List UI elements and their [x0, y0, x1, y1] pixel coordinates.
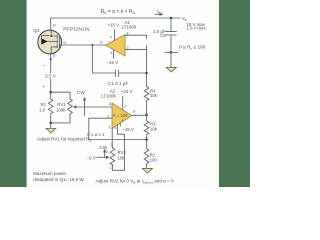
svg-text:3: 3	[109, 102, 111, 106]
potentiometer RV1	[51, 92, 73, 123]
svg-text:–5 V: –5 V	[87, 156, 96, 161]
capacitor C2	[166, 18, 177, 67]
svg-text:2: 2	[107, 114, 109, 118]
node C2 top junction	[170, 17, 173, 20]
wire A2 pin2	[89, 118, 147, 139]
svg-text:RV1: RV1	[57, 102, 66, 107]
svg-text:5: 5	[114, 126, 116, 130]
resistor R4	[144, 87, 149, 115]
svg-text:dissipated in Q1= 16.5 W: dissipated in Q1= 16.5 W	[33, 177, 84, 182]
node Ib arrow	[155, 13, 164, 16]
svg-text:3: 3	[111, 143, 113, 147]
wire A2 pin7	[122, 96, 124, 110]
node gate C1 junction	[91, 44, 93, 46]
svg-text:7: 7	[110, 36, 112, 40]
node VB	[145, 138, 148, 141]
svg-text:A2: A2	[110, 88, 116, 93]
transistor Q1	[38, 30, 62, 54]
svg-text:G: G	[63, 40, 66, 44]
svg-text:D: D	[53, 24, 56, 28]
op-amp A1	[106, 35, 126, 56]
svg-text:R1: R1	[41, 102, 47, 107]
svg-text:–15 V: –15 V	[107, 60, 119, 65]
svg-text:2: 2	[127, 46, 129, 50]
wire A2 out	[132, 114, 147, 116]
svg-text:100: 100	[150, 158, 158, 163]
svg-text:10k: 10k	[150, 127, 158, 132]
node bottom R1 RV1	[49, 122, 52, 125]
svg-text:RFP12N10L: RFP12N10L	[63, 27, 90, 33]
capacitor C1	[92, 45, 146, 73]
wire A2 pin5	[113, 125, 125, 171]
wire A1 pin2	[125, 46, 147, 87]
wire A2 pin4	[119, 123, 121, 126]
resistor R3	[144, 115, 149, 140]
wire stub Rb	[165, 51, 177, 53]
svg-text:10k: 10k	[150, 93, 158, 98]
ground under R2	[142, 168, 152, 173]
svg-text:1.0 A max: 1.0 A max	[186, 26, 206, 31]
node C2 bottom junction	[170, 51, 173, 54]
green margin right	[219, 0, 250, 187]
svg-text:LT1006: LT1006	[101, 94, 116, 99]
svg-text:–15 V: –15 V	[122, 127, 134, 132]
svg-text:100k: 100k	[56, 108, 66, 113]
wire top rail	[51, 18, 180, 30]
svg-text:C1 0.1 µF: C1 0.1 µF	[108, 81, 128, 86]
label 2.5V	[45, 73, 56, 79]
svg-text:2.5 V: 2.5 V	[45, 74, 56, 79]
node A2 out	[145, 114, 148, 117]
wire gate	[62, 44, 106, 46]
svg-text:6: 6	[133, 109, 135, 113]
wire RV1 wiper to A2 pin3	[76, 106, 112, 108]
svg-text:0 ≤ α ≤ 1: 0 ≤ α ≤ 1	[87, 132, 105, 137]
svg-text:7: 7	[124, 104, 126, 108]
green margin left	[0, 0, 27, 187]
svg-text:1: 1	[110, 166, 112, 170]
svg-text:+: +	[42, 84, 45, 89]
wire A1 pin4	[113, 50, 115, 58]
svg-text:+15 V: +15 V	[108, 23, 120, 28]
node CW arrow RV2	[104, 152, 106, 158]
ground under C2	[166, 67, 176, 72]
svg-text:K = 100: K = 100	[113, 113, 128, 118]
svg-text:+24 V: +24 V	[121, 89, 133, 94]
svg-text:2: 2	[106, 150, 108, 154]
node top of R1 RV1	[49, 91, 52, 94]
wire A1 pin3	[125, 35, 147, 39]
node S dot	[50, 58, 52, 60]
svg-text:10k: 10k	[118, 155, 126, 160]
op-amp A2	[112, 103, 132, 128]
svg-text:–: –	[43, 63, 46, 68]
svg-text:1: 1	[109, 126, 111, 130]
wire A2 pin1	[111, 128, 113, 146]
svg-text:LT1006: LT1006	[122, 25, 137, 30]
svg-text:1.0: 1.0	[39, 108, 46, 113]
svg-text:Rb = α × k × RS: Rb = α × k × RS	[101, 9, 136, 15]
ground under R1	[50, 123, 52, 128]
svg-text:4: 4	[110, 51, 112, 55]
svg-text:C2: C2	[160, 33, 166, 38]
svg-text:6: 6	[100, 41, 102, 45]
wire source down	[50, 54, 52, 92]
svg-text:Q1: Q1	[33, 28, 40, 33]
wire RV2 wiper	[97, 156, 106, 158]
svg-text:CW: CW	[77, 90, 85, 95]
svg-text:Maximum power: Maximum power	[33, 171, 67, 176]
resistor R2	[144, 140, 149, 169]
svg-text:RV2: RV2	[118, 150, 127, 155]
node C1 feedback junction	[145, 72, 148, 75]
svg-text:0 ≤ Rb ≤ 100: 0 ≤ Rb ≤ 100	[179, 44, 206, 50]
svg-text:4: 4	[121, 119, 123, 123]
svg-text:3: 3	[126, 31, 128, 35]
potentiometer RV2	[110, 147, 115, 166]
wire A1 pin7	[114, 30, 116, 40]
node CW arrow RV1	[84, 100, 86, 116]
resistor R1	[48, 92, 53, 123]
